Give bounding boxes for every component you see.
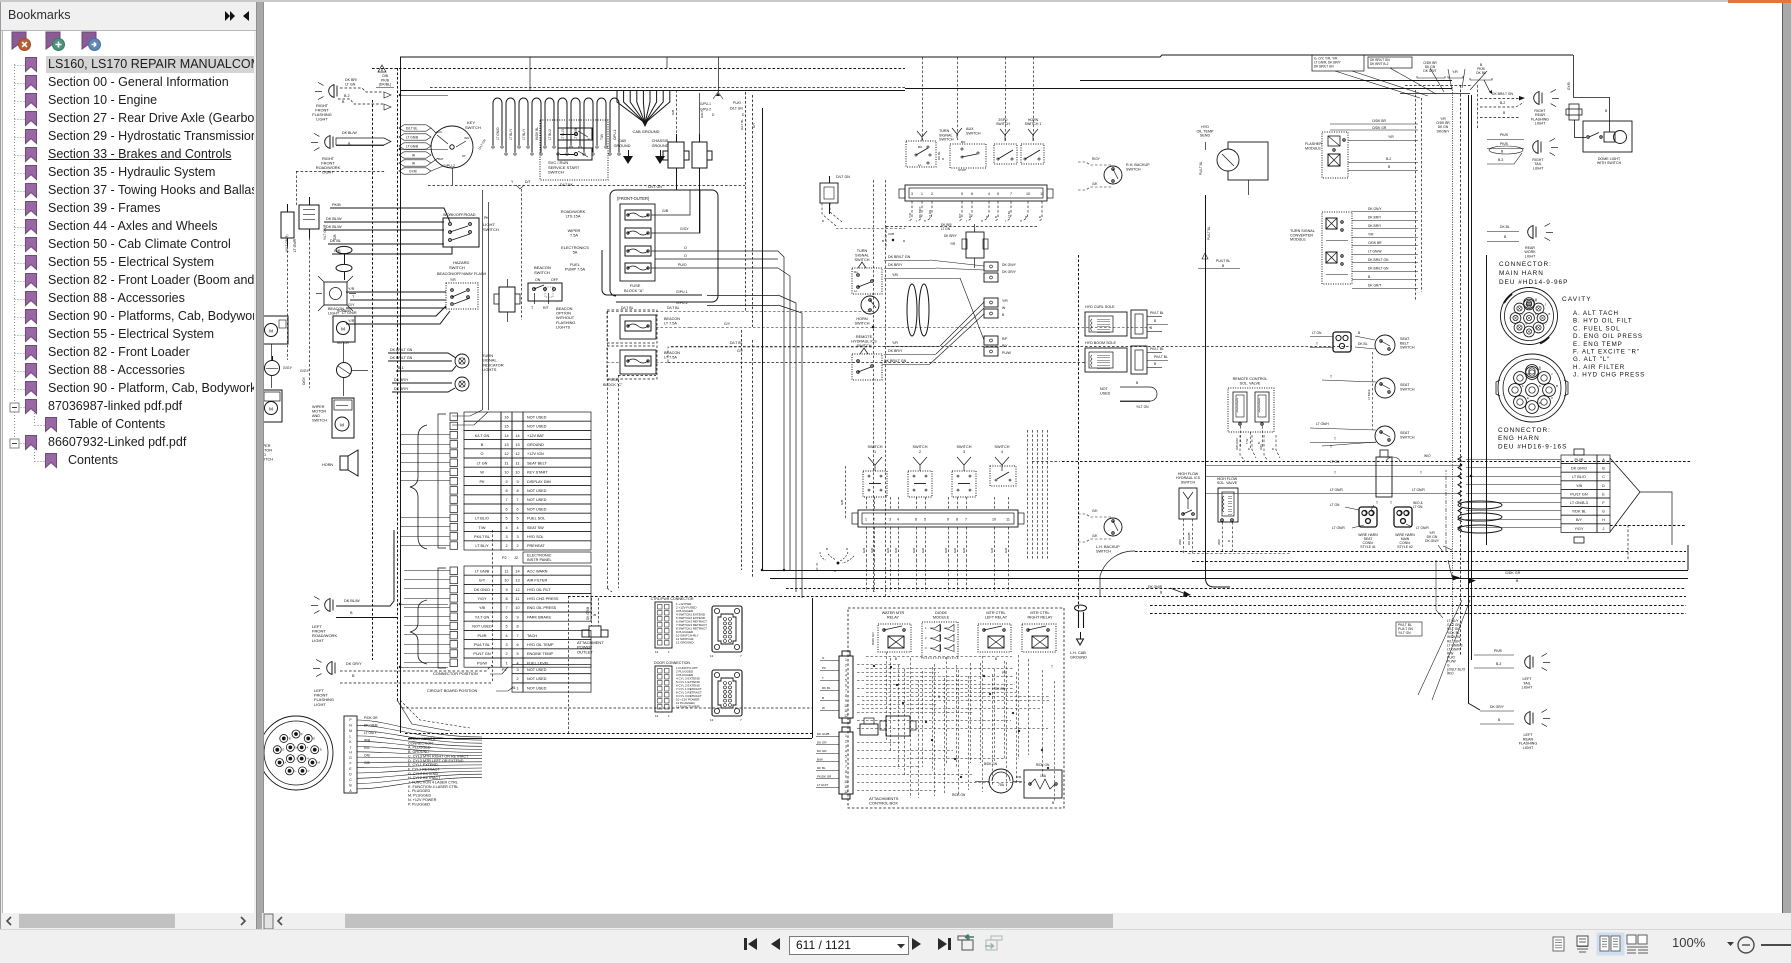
svg-text:H: H — [1535, 299, 1537, 303]
svg-text:DK GN/Y: DK GN/Y — [1425, 539, 1440, 543]
svg-text:A: A — [349, 789, 352, 793]
wire bottom long dashed 4 — [568, 596, 1686, 598]
svg-text:LIGHT: LIGHT — [322, 170, 334, 175]
svg-text:DKGN/Y: DKGN/Y — [1437, 129, 1450, 133]
svg-text:WIPER: WIPER — [312, 405, 325, 409]
svg-text:LT GN: LT GN — [941, 227, 951, 231]
wire dashed verticals x873 — [874, 180, 886, 598]
svg-text:LT GN/R: LT GN/R — [1416, 526, 1429, 530]
svg-text:11: 11 — [516, 461, 520, 465]
motor runner — [333, 309, 355, 345]
svg-text:DK BL/W: DK BL/W — [344, 599, 360, 603]
svg-text:T: T — [1334, 437, 1336, 441]
fuse beacon lt 7.5a lower — [607, 339, 873, 379]
svg-text:DIODE: DIODE — [935, 611, 947, 615]
svg-text:10A: 10A — [1040, 774, 1047, 778]
svg-text:DK BR/LT GN: DK BR/LT GN — [1492, 92, 1514, 96]
svg-text:4: 4 — [505, 634, 507, 638]
svg-text:B-2: B-2 — [1500, 101, 1505, 105]
horn speaker — [322, 450, 358, 476]
wire label stack small — [1396, 622, 1422, 636]
svg-text:B/W: B/W — [817, 757, 823, 761]
svg-text:HYD SOL: HYD SOL — [527, 535, 544, 539]
svg-text:LIGHT: LIGHT — [312, 638, 324, 643]
svg-text:4: 4 — [505, 526, 507, 530]
svg-text:6: 6 — [505, 507, 507, 511]
svg-text:LT GN/Y: LT GN/Y — [364, 731, 377, 735]
svg-text:M: M — [269, 406, 273, 411]
wire label drop 96p — [1445, 470, 1447, 552]
svg-text:3: 3 — [505, 535, 507, 539]
svg-text:SEAT BELT: SEAT BELT — [527, 461, 548, 465]
svg-text:MODULE: MODULE — [933, 615, 950, 619]
svg-text:PU/LT BL: PU/LT BL — [1199, 161, 1203, 175]
svg-text:3: 3 — [925, 646, 927, 650]
relay mtr ctrl right — [1022, 611, 1056, 669]
wire g/pu pair right — [707, 296, 778, 306]
wire bottom long dashed 3 — [786, 588, 1686, 590]
svg-text:BO: BO — [918, 145, 923, 149]
svg-text:ENGINE TEMP: ENGINE TEMP — [527, 652, 554, 656]
svg-text:DK GN/R: DK GN/R — [1148, 585, 1163, 589]
svg-text:CHASSIS: CHASSIS — [652, 139, 669, 143]
svg-text:DK BR/LT GN: DK BR/LT GN — [390, 348, 413, 352]
connector door — [654, 661, 742, 722]
svg-text:1: 1 — [874, 450, 876, 454]
orange strip — [1728, 0, 1791, 3]
seat circuit wires — [1296, 437, 1461, 497]
wire risers to control box — [867, 560, 1009, 592]
svg-text:B: B — [1136, 381, 1139, 385]
svg-text:4: 4 — [1001, 450, 1003, 454]
wire diagonals to stack — [1418, 560, 1470, 700]
svg-text:T/W: T/W — [600, 134, 604, 140]
connector eng harn circular 16s — [1496, 354, 1568, 422]
wire right main vertical bus pair — [1469, 95, 1472, 703]
svg-text:B: B — [1504, 235, 1507, 239]
svg-text:O: O — [481, 452, 484, 456]
svg-text:12: 12 — [844, 714, 848, 718]
svg-text:1: 1 — [845, 734, 847, 738]
svg-text:C: C — [307, 769, 309, 773]
svg-text:B: B — [1358, 331, 1361, 335]
svg-text:A: A — [285, 761, 287, 765]
svg-text:R/Y: R/Y — [968, 213, 972, 218]
svg-text:LT GN/B: LT GN/B — [406, 145, 418, 149]
svg-text:12 GROUND: 12 GROUND — [676, 641, 694, 645]
svg-text:T/W: T/W — [1245, 438, 1249, 444]
svg-text:4: 4 — [897, 518, 899, 522]
svg-text:G/B: G/B — [662, 209, 669, 213]
svg-text:ST: ST — [462, 154, 466, 158]
switch lh backup — [1078, 509, 1122, 553]
lamp rear work light — [1487, 223, 1553, 258]
lamp left rear flashing light — [1480, 705, 1550, 750]
svg-text:G: G — [349, 756, 352, 760]
svg-text:D: D — [1539, 401, 1541, 405]
cab ground wire fan — [614, 90, 670, 148]
relay water mtr — [871, 611, 911, 661]
switch remote hydraulics — [851, 335, 882, 380]
svg-text:NOT USED: NOT USED — [527, 425, 547, 429]
svg-text:11: 11 — [1006, 518, 1010, 522]
svg-text:ACC WARN: ACC WARN — [527, 569, 548, 573]
svg-text:DK BL/W: DK BL/W — [326, 225, 342, 229]
svg-text:1: 1 — [668, 714, 670, 718]
wire left vertical bus — [400, 57, 402, 733]
svg-text:G/R: G/R — [944, 547, 948, 553]
svg-text:B: B — [994, 216, 998, 218]
svg-text:B: B — [1516, 579, 1519, 583]
fuse block a box — [620, 204, 655, 281]
remote hyd wire labels — [882, 341, 940, 365]
svg-text:AIR FILTER: AIR FILTER — [527, 579, 547, 583]
svg-text:IGN: IGN — [464, 136, 469, 140]
svg-text:K: K — [1539, 384, 1541, 388]
svg-text:NOT USED: NOT USED — [527, 677, 547, 681]
svg-text:O/B: O/B — [364, 754, 370, 758]
svg-text:D: D — [1535, 326, 1537, 330]
svg-text:B: B — [895, 657, 897, 661]
svg-text:LT BL/O: LT BL/O — [475, 517, 489, 521]
svg-text:10: 10 — [844, 704, 848, 708]
wire converge diagonals — [1335, 68, 1487, 98]
svg-text:LT BL/Y: LT BL/Y — [475, 544, 489, 548]
wire left vertical dashed bus — [397, 68, 399, 700]
svg-text:PU/LT BL: PU/LT BL — [1207, 226, 1211, 240]
svg-text:CONNECTOR POSITION: CONNECTOR POSITION — [433, 671, 478, 676]
svg-text:SWITCH: SWITCH — [868, 445, 883, 449]
svg-text:L: L — [350, 734, 352, 738]
svg-text:NOT USED: NOT USED — [527, 686, 547, 690]
svg-text:SWITCH: SWITCH — [465, 125, 481, 130]
connector plug symbol — [494, 279, 520, 322]
svg-text:H: H — [349, 751, 352, 755]
svg-text:B-3: B-3 — [1498, 158, 1503, 162]
component tall left — [281, 204, 294, 246]
svg-text:6: 6 — [915, 518, 917, 522]
svg-text:3: 3 — [845, 744, 847, 748]
svg-text:SWITCH: SWITCH — [855, 321, 870, 325]
svg-text:DK GR/T: DK GR/T — [1423, 69, 1436, 73]
svg-text:DK GN/Y: DK GN/Y — [1368, 207, 1382, 211]
svg-text:T: T — [1316, 342, 1318, 346]
connector pin strip attachment — [344, 716, 357, 793]
svg-text:M: M — [340, 422, 344, 427]
svg-text:5: 5 — [516, 652, 518, 656]
control box wiring grid — [857, 652, 1055, 801]
svg-text:DK BR/Y: DK BR/Y — [888, 263, 903, 267]
svg-text:5: 5 — [845, 755, 847, 759]
svg-text:R/B: R/B — [364, 746, 370, 750]
svg-text:BEACON: BEACON — [664, 317, 680, 321]
svg-text:PK/B: PK/B — [332, 203, 341, 207]
svg-text:SWITCH: SWITCH — [1400, 346, 1415, 350]
svg-text:LT GN: LT GN — [1312, 331, 1322, 335]
svg-text:LT GN/R: LT GN/R — [1412, 488, 1425, 492]
svg-text:F: F — [1602, 501, 1605, 505]
svg-text:DK BR/Y: DK BR/Y — [1368, 224, 1382, 228]
connector ctrl/pwr — [651, 597, 742, 658]
svg-text:P. PLUGGED: P. PLUGGED — [408, 802, 430, 806]
svg-text:PU/LT BL: PU/LT BL — [1216, 259, 1230, 263]
switch seat lower — [1310, 352, 1415, 449]
svg-text:R/GY: R/GY — [1092, 157, 1101, 161]
svg-text:12: 12 — [844, 790, 848, 794]
wire long dashed to solenoids — [668, 362, 1085, 364]
svg-text:O: O — [684, 254, 687, 258]
svg-text:G/K: G/K — [1092, 534, 1098, 538]
beacon option note — [556, 306, 575, 329]
svg-text:LT GN: LT GN — [1330, 460, 1340, 464]
wire label stack y/r group — [1436, 117, 1450, 133]
svg-text:3: 3 — [963, 450, 965, 454]
svg-text:B: B — [1605, 109, 1607, 113]
svg-text:F: F — [301, 732, 303, 736]
node A marker — [378, 65, 386, 72]
svg-text:W/O: W/O — [1217, 538, 1221, 545]
svg-text:B: B — [822, 696, 824, 700]
svg-text:11: 11 — [844, 709, 848, 713]
svg-text:8: 8 — [505, 489, 507, 493]
panel splitter — [256, 0, 264, 929]
svg-text:DK BL: DK BL — [1358, 342, 1368, 346]
svg-text:7: 7 — [845, 689, 847, 693]
svg-text:1: 1 — [921, 192, 923, 196]
svg-text:O/DK BR: O/DK BR — [1368, 241, 1382, 245]
connector wire harn main — [1390, 501, 1452, 550]
svg-text:5: 5 — [516, 517, 518, 521]
svg-text:B/Y: B/Y — [1576, 518, 1583, 522]
svg-text:PU/LT BL: PU/LT BL — [474, 643, 490, 647]
svg-text:B: B — [1271, 448, 1275, 450]
svg-text:PU/LT GN: PU/LT GN — [1570, 492, 1587, 496]
svg-text:MAIN HARN: MAIN HARN — [1499, 270, 1544, 277]
svg-text:SWITCH: SWITCH — [548, 170, 564, 175]
svg-text:L.H. CAB: L.H. CAB — [1070, 651, 1086, 655]
svg-text:6: 6 — [516, 507, 518, 511]
svg-text:DK GN/O: DK GN/O — [474, 588, 490, 592]
svg-text:DEU #HD16-9-16S: DEU #HD16-9-16S — [1498, 443, 1567, 450]
svg-text:3: 3 — [845, 668, 847, 672]
attachments control box outline — [848, 608, 1064, 808]
svg-text:T: T — [1376, 501, 1378, 505]
svg-text:SWITCH: SWITCH — [312, 419, 327, 423]
svg-text:DK GR: DK GR — [817, 740, 827, 744]
svg-text:R/T: R/T — [543, 306, 550, 310]
svg-text:12: 12 — [515, 588, 519, 592]
svg-text:SWITCH: SWITCH — [957, 445, 972, 449]
svg-text:SWITCH: SWITCH — [1126, 167, 1141, 171]
svg-text:1: 1 — [925, 626, 927, 630]
svg-text:Y/R: Y/R — [1002, 299, 1008, 303]
svg-text:SWITCH: SWITCH — [995, 445, 1010, 449]
svg-text:DK BR/Y: DK BR/Y — [888, 349, 903, 353]
svg-text:LT GN: LT GN — [1330, 503, 1340, 507]
lamp right front flashing light — [312, 78, 391, 122]
svg-text:K: K — [349, 740, 352, 744]
svg-text:H: H — [1539, 367, 1541, 371]
wire not used loop — [1100, 381, 1157, 409]
svg-text:STOP: STOP — [958, 168, 966, 172]
fuse wiper — [568, 190, 700, 238]
svg-text:GROUND: GROUND — [1070, 655, 1087, 659]
component small mid — [860, 718, 878, 735]
svg-text:J. HYD CHG PRESS: J. HYD CHG PRESS — [1573, 372, 1645, 379]
svg-text:Y/R: Y/R — [1368, 233, 1374, 237]
wire dashed y525 right — [1610, 525, 1686, 527]
svg-text:D/LT BL: D/LT BL — [621, 306, 634, 310]
svg-text:O: O — [1024, 215, 1028, 218]
svg-text:DK GR/Y: DK GR/Y — [1002, 270, 1017, 274]
svg-text:10: 10 — [515, 606, 519, 610]
svg-text:GROUND: GROUND — [652, 144, 669, 148]
svg-text:6: 6 — [845, 760, 847, 764]
svg-text:SOL. VALVE: SOL. VALVE — [1240, 381, 1261, 385]
svg-text:G/PU-1: G/PU-1 — [676, 290, 688, 294]
svg-text:B: B — [1222, 264, 1225, 268]
svg-text:FUSE: FUSE — [608, 378, 619, 382]
svg-text:MODULE: MODULE — [1305, 146, 1321, 150]
svg-text:14: 14 — [504, 434, 508, 438]
svg-text:DK BR/Y: DK BR/Y — [394, 387, 409, 391]
solenoid hyd boom — [1085, 341, 1168, 374]
svg-text:LIGHT: LIGHT — [316, 117, 328, 122]
svg-text:MTR CTRL: MTR CTRL — [1030, 611, 1049, 615]
svg-text:D/LT GN: D/LT GN — [477, 138, 486, 150]
svg-text:B: B — [1257, 442, 1261, 444]
turn mid wire labels — [884, 255, 936, 279]
attachment power outlet — [577, 598, 608, 654]
svg-text:NOT USED: NOT USED — [472, 625, 492, 629]
svg-text:OUTLET: OUTLET — [577, 649, 593, 654]
svg-text:G/R: G/R — [962, 547, 966, 553]
svg-text:B: B — [1002, 313, 1005, 317]
svg-text:K: K — [307, 745, 309, 749]
svg-text:C. FUEL SOL: C. FUEL SOL — [1573, 325, 1621, 332]
svg-text:T: T — [531, 306, 534, 310]
svg-text:B: B — [349, 783, 352, 787]
wire d/lt gn top label — [836, 175, 850, 179]
svg-text:W/DK BL: W/DK BL — [535, 127, 539, 140]
svg-text:LT GN: LT GN — [477, 461, 488, 465]
svg-text:SWITCH: SWITCH — [996, 122, 1010, 126]
svg-text:Y/R: Y/R — [892, 341, 898, 345]
svg-text:8: 8 — [845, 770, 847, 774]
svg-text:D: D — [834, 569, 836, 573]
svg-text:DK BR/Y: DK BR/Y — [394, 378, 409, 382]
svg-text:D/LT BL: D/LT BL — [730, 341, 743, 345]
svg-text:HYD OIL FILT: HYD OIL FILT — [527, 588, 551, 592]
svg-text:C: C — [1551, 396, 1553, 400]
svg-text:BLOCK "C": BLOCK "C" — [603, 383, 623, 387]
svg-text:G/Y: G/Y — [752, 123, 756, 128]
svg-text:J1: J1 — [512, 686, 516, 690]
svg-text:B/DK GN: B/DK GN — [984, 762, 998, 766]
svg-text:B-3: B-3 — [1496, 662, 1501, 666]
wire seat lines left — [1205, 466, 1296, 494]
svg-text:LT GN/B: LT GN/B — [475, 569, 490, 573]
svg-text:W/B: W/B — [364, 739, 371, 743]
svg-text:B: B — [1556, 384, 1558, 388]
svg-text:LT BL/2: LT BL/2 — [548, 129, 552, 140]
svg-text:7: 7 — [740, 718, 742, 722]
connector instrument panel block P2 — [400, 412, 591, 550]
svg-text:2: 2 — [516, 677, 518, 681]
svg-text:DK BR/LT GN: DK BR/LT GN — [1368, 258, 1389, 262]
svg-text:9: 9 — [845, 775, 847, 779]
connector pigtail rows — [502, 665, 591, 693]
svg-text:PREHEAT: PREHEAT — [527, 544, 545, 548]
svg-text:B: B — [1052, 801, 1054, 805]
svg-text:Y/LT GN: Y/LT GN — [475, 615, 490, 619]
svg-text:SOL. VALVE: SOL. VALVE — [1217, 481, 1238, 485]
svg-text:10: 10 — [992, 518, 996, 522]
svg-text:4: 4 — [845, 673, 847, 677]
connector below bar — [941, 223, 988, 268]
svg-text:T: T — [1420, 471, 1422, 475]
svg-text:MTR CTRL: MTR CTRL — [986, 611, 1005, 615]
svg-text:C: C — [1602, 475, 1605, 479]
svg-text:G: G — [282, 748, 284, 752]
svg-text:O/DK GR: O/DK GR — [1372, 126, 1387, 130]
wire dashed bus x1415 — [1416, 90, 1422, 300]
svg-text:G: G — [1602, 510, 1605, 514]
svg-text:DK BR/LT GN: DK BR/LT GN — [390, 356, 413, 360]
svg-text:DK BL: DK BL — [822, 686, 831, 690]
wire label O/B PK/B — [376, 74, 394, 88]
bottom toolbar — [0, 929, 1791, 958]
svg-text:7: 7 — [1010, 192, 1012, 196]
svg-text:E: E — [313, 736, 315, 740]
svg-text:Y/R: Y/R — [348, 287, 355, 291]
wire g/dk gr label — [1148, 571, 1521, 597]
svg-text:B: B — [342, 100, 345, 104]
wires right of switch row — [1028, 430, 1061, 560]
svg-text:T: T — [1390, 501, 1392, 505]
svg-text:Y/R: Y/R — [1452, 70, 1458, 74]
connector eng harn table — [1458, 449, 1672, 545]
wire dashed connector diagonals — [821, 203, 905, 229]
svg-text:B: B — [1388, 165, 1391, 169]
svg-text:9: 9 — [947, 518, 949, 522]
svg-text:3: 3 — [505, 643, 507, 647]
svg-text:DK BL: DK BL — [1476, 71, 1486, 75]
ground cab — [623, 150, 633, 164]
wire attach box feed — [812, 598, 814, 738]
svg-text:Y/B: Y/B — [892, 273, 898, 277]
svg-text:B: B — [826, 547, 828, 551]
text front-outer — [617, 196, 650, 201]
svg-text:G/R: G/R — [886, 547, 890, 553]
bookmarks panel — [0, 0, 256, 929]
attachments connection legend — [408, 737, 469, 806]
svg-text:D/LT BL: D/LT BL — [667, 306, 680, 310]
wire stubs control strips — [816, 656, 839, 788]
motor ground straps — [663, 134, 712, 176]
svg-text:J: J — [1545, 302, 1547, 306]
wire labels g/pu top — [700, 57, 745, 117]
svg-text:(Y/LT GN/R): (Y/LT GN/R) — [285, 235, 289, 252]
wire main top bus — [400, 55, 1573, 57]
svg-text:B: B — [821, 220, 825, 222]
svg-text:G/GY: G/GY — [700, 110, 704, 118]
svg-text:P/DK GR: P/DK GR — [364, 716, 378, 720]
svg-text:PK: PK — [822, 666, 826, 670]
svg-text:GY/B: GY/B — [409, 170, 417, 174]
svg-text:B. HYD OIL FILT: B. HYD OIL FILT — [1573, 318, 1633, 325]
svg-text:NOT USED: NOT USED — [527, 498, 547, 502]
